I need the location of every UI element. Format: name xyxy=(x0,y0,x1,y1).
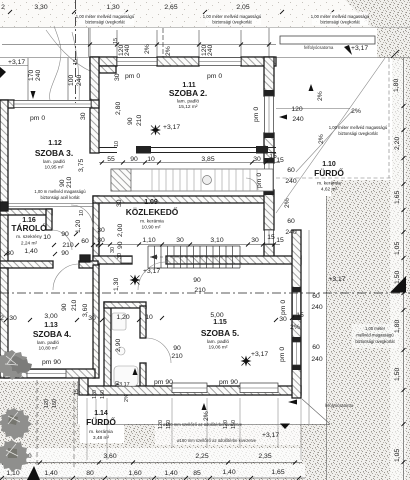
svg-text:1.12: 1.12 xyxy=(48,140,62,147)
svg-text:biztonsági üvegkorlát: biztonsági üvegkorlát xyxy=(338,131,378,136)
svg-text:30: 30 xyxy=(80,112,87,120)
svg-text:1.14: 1.14 xyxy=(94,410,108,417)
svg-text:m. szekrény: m. szekrény xyxy=(16,234,42,240)
black wedge bottom-left xyxy=(27,466,40,480)
white pocket right glass text xyxy=(352,324,398,348)
wall: SZOBA2 left wall xyxy=(90,57,99,153)
stipple right upper strip xyxy=(326,58,410,480)
svg-text:5,00: 5,00 xyxy=(210,312,223,319)
svg-text:lam. padló: lam. padló xyxy=(43,159,65,165)
wall: block at balustrade joint xyxy=(0,202,8,211)
bottom dim row lines xyxy=(0,463,305,479)
dim line: strip row y162 xyxy=(99,162,280,164)
svg-text:10: 10 xyxy=(79,210,85,216)
svg-text:2: 2 xyxy=(0,315,4,322)
window: SZOBA3 top window xyxy=(14,101,91,108)
svg-text:120: 120 xyxy=(92,390,98,399)
bush middle xyxy=(0,408,32,440)
wall: bottom outer wall xyxy=(87,386,301,395)
svg-text:240: 240 xyxy=(311,304,323,311)
svg-text:1,00 m mellvéd magasságú: 1,00 m mellvéd magasságú xyxy=(34,189,86,194)
wall: top wall SZOBA2 middle segment xyxy=(157,57,199,66)
room label 1.13 SZOBA 4 xyxy=(33,322,71,352)
svg-text:15: 15 xyxy=(113,38,119,44)
svg-text:90: 90 xyxy=(193,277,201,284)
svg-text:150: 150 xyxy=(52,399,58,408)
axis: horizontal dash-dot y293 xyxy=(0,292,410,294)
svg-text:10,80 m²: 10,80 m² xyxy=(39,346,58,352)
stair strip steps xyxy=(152,169,257,191)
door arc: TAROLO xyxy=(52,230,72,250)
white pocket for room 1.14 label xyxy=(80,405,124,443)
svg-text:SZOBA 4.: SZOBA 4. xyxy=(33,329,71,339)
tarolo door dims xyxy=(6,227,105,257)
wall: lower wing top band left part xyxy=(93,256,132,264)
svg-text:pm 0: pm 0 xyxy=(253,107,260,122)
guard plank above terrace xyxy=(280,36,375,44)
svg-text:+3,17: +3,17 xyxy=(328,276,345,283)
svg-text:60: 60 xyxy=(312,344,320,351)
svg-text:+3,17: +3,17 xyxy=(8,59,25,66)
white pocket vent texts xyxy=(155,418,300,445)
white pocket bottom dim row2 xyxy=(0,464,305,478)
svg-text:pm 90: pm 90 xyxy=(154,379,173,386)
svg-text:SZOBA 5.: SZOBA 5. xyxy=(201,328,239,338)
walkway tick triangle xyxy=(280,424,290,430)
svg-text:1,40: 1,40 xyxy=(44,470,57,477)
svg-text:90: 90 xyxy=(127,117,134,125)
room label 1.09 KOZLEKEDO xyxy=(126,199,179,231)
svg-text:240: 240 xyxy=(311,356,323,363)
svg-text:15: 15 xyxy=(73,59,79,65)
ticks row y320 xyxy=(4,316,294,322)
svg-text:biztonsági üvegkorlát: biztonsági üvegkorlát xyxy=(212,20,252,25)
svg-text:210: 210 xyxy=(71,299,78,311)
svg-text:+3,17: +3,17 xyxy=(116,382,130,388)
svg-text:30: 30 xyxy=(6,250,14,257)
dim ticks top row xyxy=(8,10,334,47)
terrace dashed edge bottom xyxy=(276,177,392,179)
wall: FURDO 1.14 top wall xyxy=(104,302,146,308)
stipple top-right corner light xyxy=(330,0,410,28)
SZOBA3 balustrade double line xyxy=(0,203,93,205)
svg-text:3,30: 3,30 xyxy=(34,4,47,11)
svg-text:3,75: 3,75 xyxy=(78,159,85,172)
compass star center-left xyxy=(130,275,141,286)
svg-text:30: 30 xyxy=(117,253,123,259)
svg-text:1,80: 1,80 xyxy=(393,79,400,92)
svg-text:3,48 m²: 3,48 m² xyxy=(93,435,110,441)
svg-text:60: 60 xyxy=(81,238,89,245)
wall: SZOBA4 right wall xyxy=(93,265,99,378)
window: bottom window 1 xyxy=(172,383,207,393)
strip dim row xyxy=(107,153,277,163)
wall cap east window 1 top xyxy=(292,287,301,292)
room label 1.12 SZOBA 3 xyxy=(35,140,73,171)
svg-text:2%: 2% xyxy=(317,91,324,101)
bottom dim row 2 xyxy=(6,469,284,477)
wall: FURDO 1.14 east wall upper xyxy=(140,306,146,338)
top glass guard notes xyxy=(76,14,370,25)
walkway left edge xyxy=(95,399,97,424)
terrace dashed edge right xyxy=(388,58,390,178)
bottom-left stipple boundary xyxy=(77,381,79,424)
svg-text:ø150 mm szellőző az üdülőtérbe: ø150 mm szellőző az üdülőtérbe kivezetve xyxy=(163,422,243,427)
svg-text:biztonsági üvegkorlát: biztonsági üvegkorlát xyxy=(85,20,125,25)
svg-text:240: 240 xyxy=(35,69,42,81)
svg-text:90: 90 xyxy=(130,156,138,163)
wall cap east window 2 top xyxy=(292,337,301,342)
svg-text:SZOBA 3.: SZOBA 3. xyxy=(35,148,73,158)
svg-text:210: 210 xyxy=(194,287,206,294)
svg-text:2,24 m²: 2,24 m² xyxy=(21,241,38,247)
svg-text:2%: 2% xyxy=(124,394,130,402)
svg-text:1,00 méter mellvéd magasságú: 1,00 méter mellvéd magasságú xyxy=(76,14,135,19)
svg-text:30: 30 xyxy=(279,316,287,323)
svg-text:lam. padló: lam. padló xyxy=(37,340,59,346)
svg-text:1,30: 1,30 xyxy=(106,4,119,11)
svg-text:2%: 2% xyxy=(290,324,300,331)
window: SZOBA4 bottom window xyxy=(27,370,66,378)
svg-text:KÖZLEKEDŐ: KÖZLEKEDŐ xyxy=(126,206,179,217)
svg-text:60: 60 xyxy=(312,293,320,300)
wall: bottom step connector xyxy=(79,378,88,395)
svg-text:1,05: 1,05 xyxy=(394,242,401,255)
axis: vertical short at x163 xyxy=(162,28,164,57)
top dimension numbers xyxy=(1,4,250,11)
dim line under +3,17 xyxy=(0,65,28,67)
lower stairs xyxy=(148,246,240,268)
svg-text:1,00 méter: 1,00 méter xyxy=(365,326,386,331)
SZOBA2 bottom thin partition xyxy=(99,148,276,153)
svg-text:2: 2 xyxy=(1,4,5,11)
terrace corner tick xyxy=(391,50,399,58)
svg-text:10: 10 xyxy=(145,314,153,321)
door arc: strip right door xyxy=(246,178,258,190)
svg-text:240: 240 xyxy=(207,44,214,56)
svg-text:210: 210 xyxy=(171,353,183,360)
right stipple boundary line xyxy=(326,196,328,480)
svg-text:10: 10 xyxy=(114,141,120,147)
svg-text:30: 30 xyxy=(97,237,105,244)
svg-text:2,35: 2,35 xyxy=(258,453,271,460)
svg-text:m. kerámia: m. kerámia xyxy=(317,181,341,187)
stipple top-right corner xyxy=(377,26,410,58)
svg-text:3,60: 3,60 xyxy=(103,453,116,460)
door arc: SZOBA4 xyxy=(53,264,79,290)
svg-text:240: 240 xyxy=(124,44,131,56)
svg-text:1,40: 1,40 xyxy=(164,470,177,477)
svg-text:15: 15 xyxy=(267,234,275,241)
room label 1.14 FURDO xyxy=(86,410,116,441)
white pocket bottom dim row1 xyxy=(2,448,302,462)
svg-text:90: 90 xyxy=(61,231,69,238)
svg-text:1,10: 1,10 xyxy=(142,237,155,244)
svg-text:1,65: 1,65 xyxy=(271,469,284,476)
wall: small block left of SZOBA4 door xyxy=(80,255,90,262)
window: right wall opening A xyxy=(265,96,274,133)
svg-text:1,00 méter mellvéd magasságú: 1,00 méter mellvéd magasságú xyxy=(329,125,388,130)
svg-text:1,40: 1,40 xyxy=(24,248,37,255)
svg-text:1,30: 1,30 xyxy=(113,278,120,291)
stipple top faint band xyxy=(0,0,410,28)
arrow in FURDO 1.14 xyxy=(133,368,138,375)
svg-text:1,40: 1,40 xyxy=(222,469,235,476)
svg-text:2,80: 2,80 xyxy=(115,102,122,115)
ticks kozlekedo row xyxy=(96,243,276,247)
svg-text:FÜRDŐ: FÜRDŐ xyxy=(314,167,344,178)
wall cap right wall opening B top xyxy=(264,158,274,163)
svg-text:150: 150 xyxy=(100,390,106,399)
SZOBA3 guard note xyxy=(34,189,86,200)
dim line: top secondary xyxy=(2,28,276,57)
svg-text:19,06 m²: 19,06 m² xyxy=(209,345,228,351)
svg-text:pm 0: pm 0 xyxy=(279,347,286,362)
room label 1.10 FURDO xyxy=(314,161,344,193)
ticks right edge xyxy=(402,104,406,464)
svg-text:2%: 2% xyxy=(144,44,151,54)
svg-text:55: 55 xyxy=(107,156,115,163)
svg-text:1.10: 1.10 xyxy=(322,161,336,168)
wall: left outer wall lower xyxy=(0,268,8,378)
bush top (over wall corner) xyxy=(0,350,32,380)
svg-text:90: 90 xyxy=(117,241,124,249)
right mid glass note xyxy=(329,125,388,136)
terrace dim line y108 xyxy=(276,108,350,110)
svg-text:2,20: 2,20 xyxy=(394,137,401,150)
svg-text:210: 210 xyxy=(66,176,73,188)
svg-text:90: 90 xyxy=(59,179,66,187)
compass star SZOBA5 xyxy=(241,356,252,367)
svg-text:1,20: 1,20 xyxy=(116,314,129,321)
fixtures FURDO 1.14 xyxy=(112,313,138,386)
svg-text:30: 30 xyxy=(253,156,261,163)
stair strip hatched left part xyxy=(111,169,131,191)
svg-text:240: 240 xyxy=(76,74,83,86)
svg-text:240: 240 xyxy=(285,178,297,185)
wall: SZOBA3 top wall left block xyxy=(0,100,14,108)
svg-text:30: 30 xyxy=(97,227,105,234)
wall: right wall upper seg3 xyxy=(264,190,274,230)
svg-text:30: 30 xyxy=(9,315,17,322)
stipple bottom-left pocket xyxy=(0,381,78,426)
svg-text:1,00 méter mellvéd magasságú: 1,00 méter mellvéd magasságú xyxy=(203,14,262,19)
walkway vertical dim connectors xyxy=(87,398,301,460)
svg-text:2%: 2% xyxy=(351,108,361,115)
svg-text:+3,17: +3,17 xyxy=(163,124,180,131)
wall: SZOBA3 top wall right block xyxy=(91,100,99,108)
svg-text:2%: 2% xyxy=(203,411,210,421)
svg-text:TÁROLÓ: TÁROLÓ xyxy=(11,222,47,233)
svg-text:1,20: 1,20 xyxy=(75,220,82,233)
svg-text:10: 10 xyxy=(43,234,51,241)
svg-text:3,60: 3,60 xyxy=(82,304,89,317)
window: SZOBA2 top window 1 xyxy=(117,58,157,66)
lower stairs walk line xyxy=(150,256,238,258)
svg-text:15: 15 xyxy=(276,237,284,244)
svg-text:1,00 méter mellvéd magasságú: 1,00 méter mellvéd magasságú xyxy=(311,14,370,19)
svg-text:2%: 2% xyxy=(318,134,325,144)
svg-text:pm 90: pm 90 xyxy=(42,359,61,366)
top-left landscape curves xyxy=(50,26,61,100)
terrace hip diagonal main xyxy=(276,58,385,213)
svg-text:2%: 2% xyxy=(165,46,172,56)
svg-text:30: 30 xyxy=(114,73,121,81)
wall: FURDO 1.14 east wall lower xyxy=(140,363,146,390)
white cap box at band end xyxy=(121,257,132,264)
svg-text:60: 60 xyxy=(287,218,295,225)
level marker arrow top-right xyxy=(344,45,352,55)
axis: vertical dash-dot x75 xyxy=(75,0,77,103)
svg-text:3,00: 3,00 xyxy=(44,313,57,320)
door arc: SZOBA5 entry xyxy=(138,262,166,290)
wall: TAROLO top wall xyxy=(0,209,52,215)
svg-text:210: 210 xyxy=(62,242,74,249)
svg-text:pm 0: pm 0 xyxy=(207,73,222,80)
corridor dim line xyxy=(308,230,310,424)
svg-text:2,00: 2,00 xyxy=(117,224,124,237)
white pocket right dim column xyxy=(390,60,406,480)
walkway diagonal SE xyxy=(302,399,330,424)
svg-text:90: 90 xyxy=(173,345,181,352)
window: SZOBA2 top window 2 xyxy=(199,58,241,66)
svg-text:m. kerámia: m. kerámia xyxy=(89,429,113,435)
svg-text:+3,17: +3,17 xyxy=(351,45,368,52)
svg-text:felfolyócsatorna: felfolyócsatorna xyxy=(304,45,334,50)
arrow left walkway xyxy=(288,400,297,405)
svg-text:biztonsági acél korlát: biztonsági acél korlát xyxy=(40,195,80,200)
svg-text:30: 30 xyxy=(116,199,123,207)
svg-text:210: 210 xyxy=(136,114,143,126)
left col dim verticals xyxy=(28,58,68,100)
svg-text:lam. padló: lam. padló xyxy=(177,99,199,105)
svg-text:240: 240 xyxy=(292,116,304,123)
svg-text:biztonsági üvegkorlát: biztonsági üvegkorlát xyxy=(355,339,395,344)
svg-text:1,65: 1,65 xyxy=(394,191,401,204)
svg-text:pm 0: pm 0 xyxy=(30,115,45,122)
wall: right wall upper seg1 xyxy=(264,57,274,96)
black wedge right edge xyxy=(390,276,406,293)
svg-text:biztonsági üvegkorlát: biztonsági üvegkorlát xyxy=(320,20,360,25)
svg-text:30: 30 xyxy=(176,237,184,244)
kozlekedo dim row xyxy=(97,234,275,244)
svg-text:m. kerámia: m. kerámia xyxy=(140,219,164,225)
room label 1.16 TAROLO xyxy=(11,217,47,247)
bush bottom xyxy=(0,440,30,472)
SZOBA2 partition block left xyxy=(136,146,151,154)
svg-text:pm 0: pm 0 xyxy=(125,73,140,80)
SZOBA2 partition door gap xyxy=(117,146,136,154)
right lower dims xyxy=(311,276,345,363)
wall cap right wall opening A top xyxy=(264,90,274,96)
svg-text:100: 100 xyxy=(68,74,75,86)
svg-text:lam. padló: lam. padló xyxy=(207,339,229,345)
svg-text:lefolyócsatorna: lefolyócsatorna xyxy=(325,403,354,408)
svg-text:1,05: 1,05 xyxy=(394,449,401,462)
wall: SZOBA4 top wall right segment xyxy=(79,261,98,268)
room label 1.11 SZOBA 2 xyxy=(169,82,207,110)
svg-text:10,90 m²: 10,90 m² xyxy=(142,225,161,231)
svg-text:1.13: 1.13 xyxy=(44,322,58,329)
svg-text:pm 0: pm 0 xyxy=(280,300,287,315)
wall cap right wall opening A bottom xyxy=(264,133,274,138)
wall cap east window 2 bottom xyxy=(292,365,301,370)
wall: top wall SZOBA2 left segment xyxy=(90,57,117,66)
wall: right wall upper seg2 xyxy=(264,133,274,163)
terrace edge above SZOBA2 xyxy=(88,28,90,57)
svg-text:SZOBA 2.: SZOBA 2. xyxy=(169,88,207,98)
window: SZOBA5 east window 2 xyxy=(293,342,301,365)
wall: SZOBA2 corner pilaster xyxy=(99,66,116,73)
svg-text:60: 60 xyxy=(287,167,295,174)
ticks strip row xyxy=(100,161,268,165)
wall: lower wing top band right part xyxy=(166,256,301,264)
svg-text:85: 85 xyxy=(193,470,201,477)
svg-text:10,95 m²: 10,95 m² xyxy=(45,165,64,171)
right upper dims xyxy=(276,106,361,244)
svg-text:30: 30 xyxy=(251,237,259,244)
svg-text:pm 90: pm 90 xyxy=(219,379,238,386)
svg-text:3,85: 3,85 xyxy=(201,156,214,163)
wall: SZOBA4 bottom wall xyxy=(4,369,95,378)
compass star SZOBA2 xyxy=(150,125,161,136)
arrow left 240 xyxy=(279,115,287,120)
svg-text:2,65: 2,65 xyxy=(164,4,177,11)
svg-text:2,05: 2,05 xyxy=(236,4,249,11)
svg-text:1.15: 1.15 xyxy=(213,319,227,326)
wall: left outer wall upper xyxy=(0,100,8,268)
right 3-line glass note xyxy=(355,326,395,344)
wall: top wall SZOBA2 right segment xyxy=(241,57,276,66)
svg-text:4,62 m²: 4,62 m² xyxy=(321,187,338,193)
svg-text:80: 80 xyxy=(86,470,94,477)
svg-text:1,50: 1,50 xyxy=(394,368,401,381)
svg-text:90: 90 xyxy=(61,250,69,257)
svg-text:3,10: 3,10 xyxy=(210,237,223,244)
dashed verticals bottom-left xyxy=(37,380,74,468)
svg-text:15: 15 xyxy=(296,312,304,319)
svg-text:pm 0: pm 0 xyxy=(256,173,263,188)
window: right wall opening C xyxy=(265,230,274,244)
svg-text:2%: 2% xyxy=(284,198,291,208)
svg-text:120: 120 xyxy=(291,106,303,113)
row y318 dims xyxy=(0,312,304,331)
dim line: kozlekedo row y244 xyxy=(96,244,280,246)
slope arrow up right xyxy=(309,84,314,91)
svg-text:120: 120 xyxy=(44,399,50,408)
room label 1.15 SZOBA 5 xyxy=(201,312,239,351)
top note backers xyxy=(78,12,368,25)
ticks bottom rows xyxy=(0,461,301,480)
svg-text:+3,17: +3,17 xyxy=(262,432,279,439)
door arc: FURDO 1.14 xyxy=(146,338,171,363)
svg-text:+3,17: +3,17 xyxy=(251,351,268,358)
arrow down leftcol xyxy=(31,91,36,99)
svg-text:mellvéd magasságú: mellvéd magasságú xyxy=(356,333,394,338)
svg-text:ø180 mm szellőző az üdülőtérbe: ø180 mm szellőző az üdülőtérbe kivezetve xyxy=(177,438,257,443)
stairs walk arrow xyxy=(150,255,157,260)
svg-text:15,12 m²: 15,12 m² xyxy=(179,104,198,110)
stair strip outline xyxy=(111,169,273,191)
svg-text:30: 30 xyxy=(110,247,116,253)
window: right wall opening B xyxy=(265,163,274,190)
wall cap east window 1 bottom xyxy=(292,315,301,320)
svg-text:15: 15 xyxy=(276,157,284,164)
stipple top-right corner dense part xyxy=(345,0,410,28)
svg-text:2,25: 2,25 xyxy=(195,453,208,460)
svg-text:1,80: 1,80 xyxy=(394,320,401,333)
stipple bottom band xyxy=(0,424,330,480)
